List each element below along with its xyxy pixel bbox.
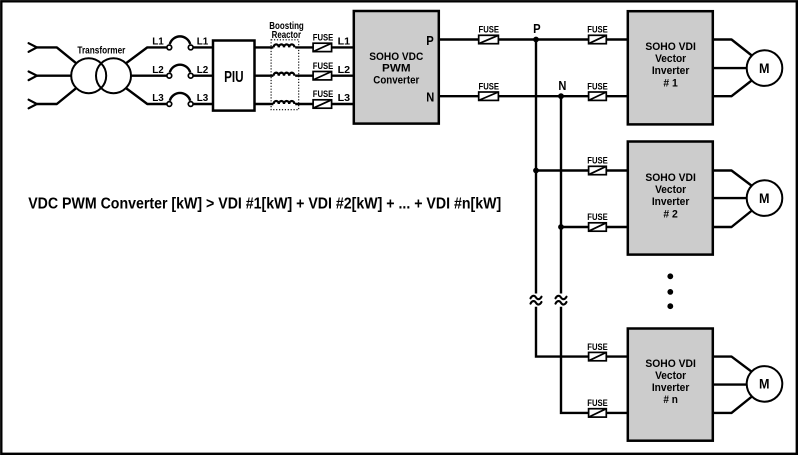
inverter 1 SOHO VDI #1	[628, 11, 713, 124]
svg-text:FUSE: FUSE	[587, 81, 608, 92]
wire converter N to node N	[439, 95, 561, 97]
svg-text:Vector: Vector	[655, 184, 687, 196]
svg-text:FUSE: FUSE	[313, 61, 334, 72]
svg-text:Inverter: Inverter	[652, 382, 690, 394]
svg-text:PWM: PWM	[382, 63, 411, 75]
inverter n SOHO VDI #n	[628, 329, 713, 441]
node N junction dot	[558, 93, 564, 99]
wire inverter 2 to motor M2	[713, 171, 765, 228]
wire PIU to reactor L3	[255, 103, 274, 105]
wire transformer to switch L2	[131, 74, 167, 76]
source arrow phase 2	[29, 72, 37, 81]
svg-text:FUSE: FUSE	[313, 33, 334, 44]
svg-text:SOHO VDC: SOHO VDC	[369, 51, 423, 63]
svg-text:SOHO VDI: SOHO VDI	[645, 358, 696, 370]
svg-text:FUSE: FUSE	[587, 398, 608, 409]
wire reactor to converter L2	[295, 74, 354, 76]
svg-text:L1: L1	[338, 36, 351, 48]
svg-text:PIU: PIU	[224, 69, 244, 86]
bus N vertical (lower)	[561, 307, 628, 413]
inverter 2 SOHO VDI #2	[628, 142, 713, 255]
fuse F11 (inverter n N)	[589, 409, 607, 417]
svg-text:Vector: Vector	[655, 53, 687, 65]
svg-text:L1: L1	[152, 36, 164, 48]
wire bus N to inverter 2	[561, 226, 628, 228]
bus P vertical (upper)	[535, 40, 537, 294]
breaker switch S2 (phase L2)	[167, 65, 193, 78]
svg-text:# 2: # 2	[663, 209, 678, 221]
transformer T1	[71, 58, 131, 93]
wire PIU to reactor L2	[255, 74, 274, 76]
svg-text:# 1: # 1	[663, 78, 678, 90]
wire bus P to inverter 2	[536, 169, 628, 171]
fuse F5 (N link)	[479, 92, 499, 100]
wire node N to inverter 1	[561, 95, 628, 97]
wire inverter 1 to motor M1	[713, 40, 765, 97]
wire switch S1 to PIU	[193, 46, 213, 48]
svg-text:L2: L2	[338, 64, 351, 76]
svg-text:SOHO VDI: SOHO VDI	[645, 41, 696, 53]
svg-text:L2: L2	[197, 64, 209, 76]
motor M2	[747, 180, 783, 216]
svg-text:Transformer: Transformer	[77, 44, 125, 56]
svg-text:Inverter: Inverter	[652, 65, 690, 77]
svg-text:FUSE: FUSE	[479, 81, 500, 92]
svg-text:L1: L1	[197, 36, 209, 48]
svg-text:FUSE: FUSE	[587, 156, 608, 167]
breaker switch S1 (phase L1)	[167, 36, 193, 49]
wire reactor to converter L1	[295, 46, 354, 48]
svg-text:N: N	[558, 79, 566, 93]
svg-text:P: P	[426, 34, 434, 48]
source arrow phase 3	[29, 100, 37, 109]
svg-text:N: N	[426, 91, 434, 105]
motor M1	[747, 50, 783, 86]
fuse F10 (inverter n P)	[589, 352, 607, 360]
wire phase3 to transformer	[37, 88, 76, 104]
svg-text:P: P	[533, 22, 541, 36]
motor Mn	[747, 366, 783, 402]
PIU box	[213, 41, 255, 111]
break symbol on bus N	[556, 296, 567, 305]
wire node P to inverter 1	[536, 38, 628, 40]
wire phase1 to transformer	[37, 47, 76, 63]
svg-text:L3: L3	[338, 92, 351, 104]
breaker switch S3 (phase L3)	[167, 93, 193, 106]
svg-text:FUSE: FUSE	[587, 212, 608, 223]
wire phase2 to transformer	[37, 74, 71, 76]
svg-text:L3: L3	[197, 92, 209, 104]
svg-text:FUSE: FUSE	[313, 89, 334, 100]
junction dot bus N to inverter 2	[558, 224, 564, 230]
wire PIU to reactor L1	[255, 46, 274, 48]
wire reactor to converter L3	[295, 103, 354, 105]
fuse F3 (phase L3)	[313, 100, 332, 108]
svg-text:Converter: Converter	[373, 74, 420, 86]
fuse F7 (inverter1 N)	[589, 92, 607, 100]
inductor L2 (boosting reactor)	[274, 73, 295, 76]
svg-text:VDC PWM Converter [kW] > VDI #: VDC PWM Converter [kW] > VDI #1[kW] + VD…	[28, 195, 501, 212]
converter U1 SOHO VDC PWM Converter	[354, 11, 439, 124]
inductor L3 (boosting reactor)	[274, 101, 295, 104]
svg-text:Vector: Vector	[655, 370, 687, 382]
svg-text:# n: # n	[663, 394, 678, 406]
fuse F4 (P link)	[479, 35, 499, 43]
svg-text:SOHO VDI: SOHO VDI	[645, 172, 696, 184]
wire inverter n to motor Mn	[713, 357, 765, 413]
wire converter P to node P	[439, 38, 536, 40]
svg-text:M: M	[759, 61, 770, 76]
wire switch S2 to PIU	[193, 74, 213, 76]
fuse F9 (inverter2 N)	[589, 223, 607, 231]
svg-text:Inverter: Inverter	[652, 196, 690, 208]
svg-text:M: M	[759, 191, 770, 206]
wire transformer to switch L3	[126, 88, 167, 104]
svg-text:FUSE: FUSE	[587, 342, 608, 353]
fuse F2 (phase L2)	[313, 72, 332, 80]
bus P vertical (lower)	[536, 307, 628, 357]
junction dot bus P to inverter 2	[533, 168, 539, 174]
fuse F8 (inverter2 P)	[589, 166, 607, 174]
boosting reactor enclosure (dashed)	[271, 40, 299, 110]
svg-text:FUSE: FUSE	[479, 25, 500, 36]
wire transformer to switch L1	[126, 47, 167, 63]
svg-text:FUSE: FUSE	[587, 25, 608, 36]
svg-text:L2: L2	[152, 64, 164, 76]
break symbol on bus P	[531, 296, 542, 305]
svg-text:L3: L3	[152, 92, 164, 104]
fuse F6 (inverter1 P)	[589, 35, 607, 43]
bus N vertical (upper)	[560, 96, 562, 293]
inductor L1 (boosting reactor)	[274, 44, 295, 47]
svg-text:M: M	[759, 377, 770, 392]
fuse F1 (phase L1)	[313, 43, 332, 51]
label Boosting Reactor	[269, 20, 304, 41]
svg-text:Reactor: Reactor	[272, 29, 302, 41]
source arrow phase 1	[29, 43, 37, 52]
node P junction dot	[533, 37, 539, 43]
wire switch S3 to PIU	[193, 103, 213, 105]
ellipsis dots (more inverters)	[667, 273, 673, 309]
